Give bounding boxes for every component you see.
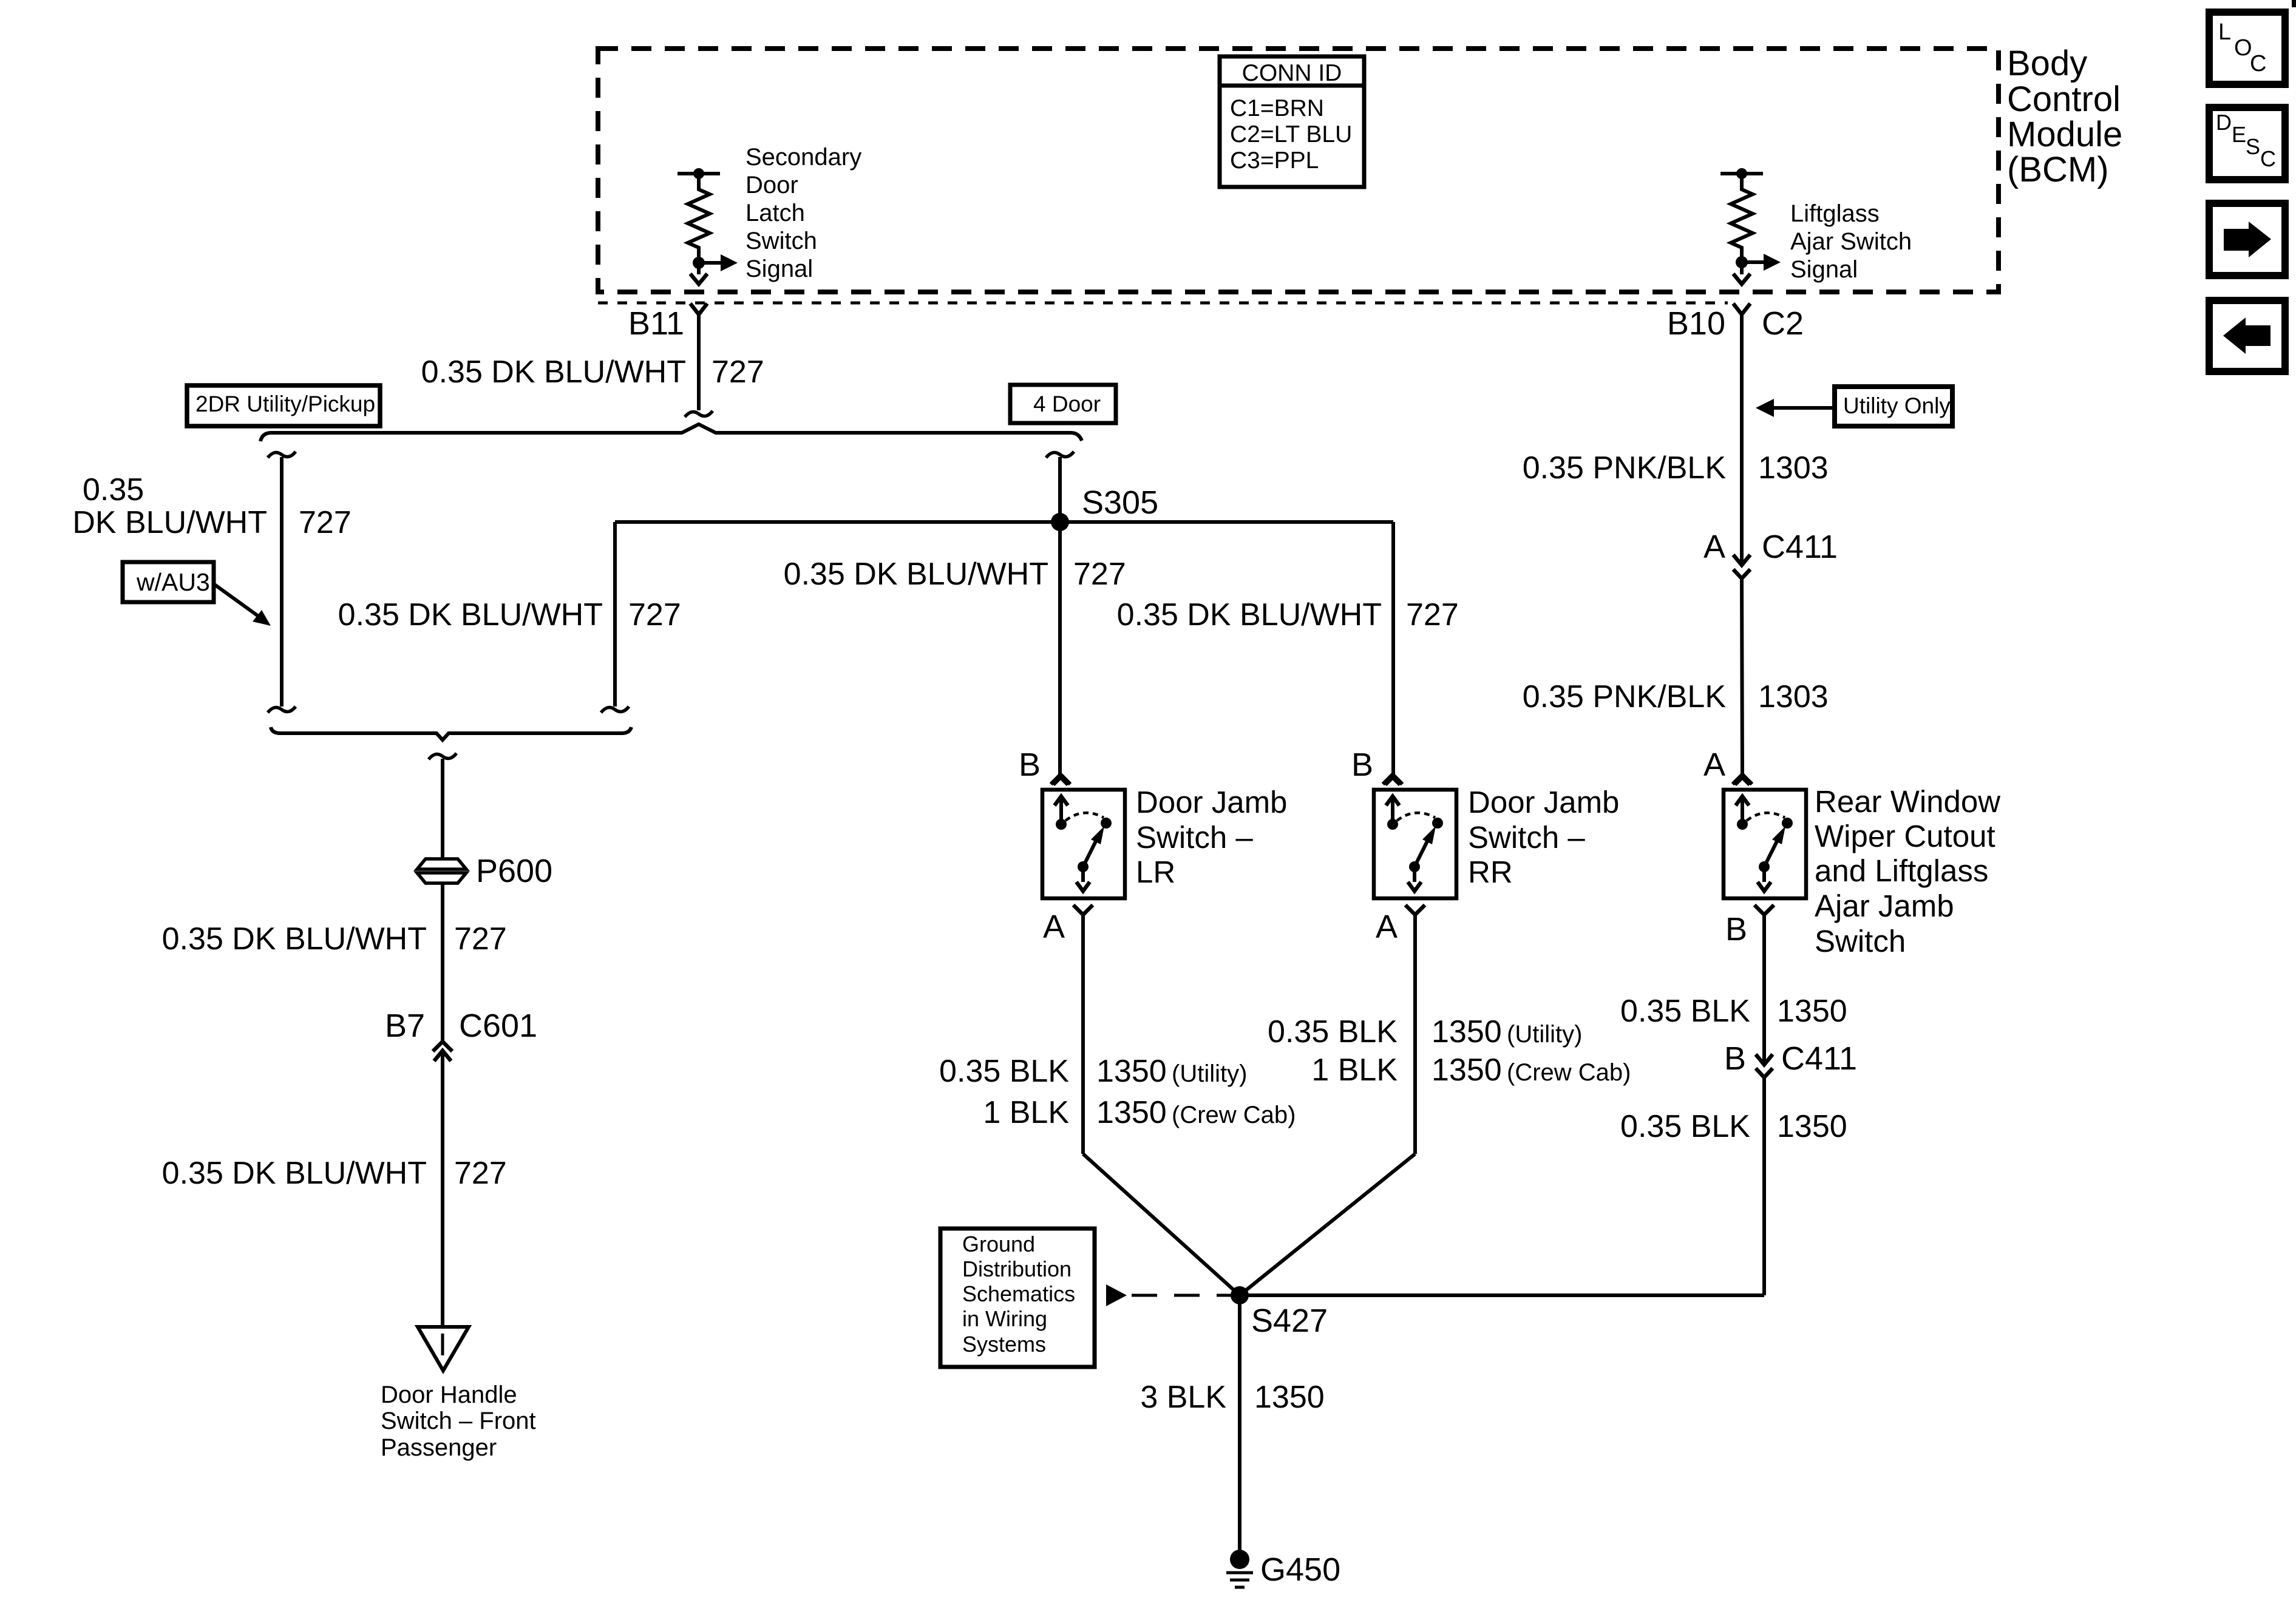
svg-text:4 Door: 4 Door [1033,392,1101,416]
component: Door Jamb Switch - RR (box and contacts) [1374,790,1456,898]
component: Door Jamb Switch - LR (box and contacts) [1042,790,1125,898]
w/AU3 pointer arrow [214,584,257,615]
svg-text:0.35 BLK: 0.35 BLK [1620,994,1750,1029]
svg-text:C411: C411 [1762,529,1838,565]
svg-text:0.35 PNK/BLK: 0.35 PNK/BLK [1523,679,1727,714]
pin A of rear window switch [1733,775,1752,784]
svg-text:(BCM): (BCM) [2007,150,2109,189]
wire S305 left leg down [613,522,617,707]
pin B10 female fork below connector line [1733,303,1750,314]
wire C601 to Door Handle Switch [441,1056,444,1327]
svg-text:C1=BRN: C1=BRN [1230,95,1324,121]
svg-text:S305: S305 [1082,484,1158,521]
svg-text:Rear Window: Rear Window [1815,784,2000,819]
off-page triangle to Door Handle Switch [418,1327,469,1371]
pin B10 male chevron [1733,274,1750,284]
svg-text:B: B [1724,1040,1746,1077]
svg-text:D: D [2216,110,2232,135]
wire 4 Door branch down through S305 [1058,457,1062,775]
tilde at bottom of 2DR branch wire [268,707,296,713]
pin B11 female fork below connector line [690,303,707,314]
sidebar LOC button [2209,12,2285,84]
svg-text:1350: 1350 [1096,1095,1167,1130]
svg-text:Door: Door [746,172,798,198]
grommet P600 symbol [417,859,466,869]
svg-text:LR: LR [1136,855,1175,889]
svg-text:B: B [1019,747,1041,783]
svg-text:1 BLK: 1 BLK [1311,1053,1398,1088]
sidebar back arrow button [2209,300,2285,371]
tilde below merge brace [429,753,457,759]
pin B of LR switch [1051,775,1070,784]
svg-text:L: L [2218,19,2231,45]
svg-text:G450: G450 [1260,1551,1340,1588]
svg-text:C2=LT BLU: C2=LT BLU [1230,121,1352,147]
svg-text:Door Handle: Door Handle [381,1381,517,1408]
wire C411 B down and left to S427 [1762,1078,1766,1295]
svg-text:(Utility): (Utility) [1507,1021,1582,1048]
wire B10 down to C411 [1740,315,1744,564]
svg-text:C: C [2250,51,2266,76]
wire C411 to rear window switch [1742,578,1742,775]
ground G450 symbol [1230,1550,1249,1569]
svg-text:Door Jamb: Door Jamb [1468,785,1619,819]
Ground Distribution reference box [940,1229,1095,1367]
Utility Only pointer arrow [1774,406,1835,410]
svg-text:1350: 1350 [1777,1109,1847,1144]
wire S427 to G450 [1238,1295,1241,1550]
option tag box: 2DR Utility/Pickup [187,385,380,426]
option merge brace (bottom) [271,727,631,740]
svg-text:1350: 1350 [1432,1053,1502,1088]
wire merged branch down to P600 [441,759,444,858]
svg-text:B11: B11 [628,305,684,342]
pin B11 male chevron [690,274,707,284]
svg-text:S427: S427 [1251,1303,1328,1339]
wire R1 to pin B11 [697,263,701,274]
svg-text:727: 727 [1406,597,1459,632]
svg-text:Switch –: Switch – [1136,820,1253,855]
pin B of rear window switch [1754,905,1774,915]
svg-text:1350: 1350 [1254,1380,1325,1415]
wire LR A down [1081,915,1085,1154]
option tag box: 4 Door [1010,385,1116,423]
svg-text:Switch – Front: Switch – Front [381,1408,536,1434]
inline connector C411 pin B symbol [1756,1054,1773,1065]
svg-text:A: A [1703,747,1725,783]
svg-text:S: S [2246,134,2260,159]
pin A of RR switch [1405,905,1425,915]
svg-text:B: B [1725,911,1747,947]
page edge mark [2292,0,2296,7]
svg-text:1350: 1350 [1432,1014,1502,1049]
inline connector C601 symbol [433,1042,452,1051]
sidebar DESC button [2209,107,2285,180]
svg-text:and Liftglass: and Liftglass [1815,853,1988,888]
resistor R1 (Secondary Door Latch Switch pull-up) [678,172,720,175]
svg-text:Ground: Ground [962,1232,1035,1256]
svg-text:0.35 DK BLU/WHT: 0.35 DK BLU/WHT [162,1156,427,1191]
svg-text:DK BLU/WHT: DK BLU/WHT [72,505,267,540]
CONN ID table box [1220,56,1364,187]
splice S427 junction dot [1231,1286,1249,1304]
svg-text:Switch: Switch [746,228,817,254]
svg-text:Latch: Latch [746,200,805,226]
svg-text:Systems: Systems [962,1332,1046,1357]
option tag box: w/AU3 [123,562,214,602]
wire rear switch B down to C411 B [1762,915,1766,1062]
svg-text:Liftglass: Liftglass [1790,200,1880,227]
svg-text:0.35 BLK: 0.35 BLK [939,1054,1069,1089]
wire LR diagonal to S427 [1083,1154,1240,1295]
svg-text:in Wiring: in Wiring [962,1306,1047,1331]
R1 signal tap arrow [699,261,721,265]
wire-end tilde at brace (B11) [685,411,713,417]
svg-text:1350: 1350 [1096,1054,1167,1089]
svg-text:0.35 DK BLU/WHT: 0.35 DK BLU/WHT [421,354,686,390]
wire S305 right leg down to RR switch [1391,522,1395,775]
svg-text:727: 727 [454,1156,507,1191]
dashed pointer to S427 [1106,1284,1127,1306]
svg-text:1303: 1303 [1758,450,1829,486]
Utility Only tag box [1835,387,1952,426]
svg-text:727: 727 [628,597,681,632]
BCM connector face thin dashed line [598,302,1728,305]
svg-text:0.35 DK BLU/WHT: 0.35 DK BLU/WHT [162,921,427,957]
svg-text:A: A [1043,909,1065,945]
svg-text:w/AU3: w/AU3 [136,568,210,596]
svg-text:Body: Body [2007,44,2087,83]
svg-text:Module: Module [2007,115,2122,154]
svg-text:Signal: Signal [746,256,813,282]
R2 signal tap arrow [1742,260,1764,264]
svg-text:727: 727 [299,505,352,540]
option split brace (top) [260,424,1082,441]
wire R2 to pin B10 [1740,262,1744,274]
svg-text:C411: C411 [1781,1040,1857,1077]
svg-text:A: A [1703,529,1725,565]
svg-text:(Crew Cab): (Crew Cab) [1507,1059,1631,1086]
svg-text:CONN ID: CONN ID [1242,60,1342,86]
svg-text:0.35 BLK: 0.35 BLK [1620,1109,1750,1144]
inline connector C411 pin A symbol [1733,555,1750,565]
svg-text:Switch –: Switch – [1468,820,1585,855]
svg-text:Signal: Signal [1790,256,1858,283]
splice S305 junction dot [1051,513,1069,531]
tilde at top of S305 wire [1046,452,1074,458]
svg-text:727: 727 [454,921,507,957]
svg-text:B: B [1351,747,1373,783]
svg-text:0.35 DK BLU/WHT: 0.35 DK BLU/WHT [1117,597,1382,632]
svg-text:1350: 1350 [1777,994,1847,1029]
svg-text:Utility Only: Utility Only [1843,393,1951,418]
svg-text:C601: C601 [459,1008,537,1044]
svg-text:Passenger: Passenger [381,1434,497,1461]
pin B of RR switch [1383,775,1402,784]
wire S305 horizontal bus [615,520,1393,524]
tilde at bottom of S305 left leg [601,707,629,713]
svg-text:Control: Control [2007,80,2121,119]
svg-text:Door Jamb: Door Jamb [1136,785,1287,819]
svg-text:0.35: 0.35 [83,472,144,507]
svg-text:C2: C2 [1762,305,1804,342]
svg-text:P600: P600 [476,853,552,889]
svg-text:B10: B10 [1667,305,1725,342]
wire RR A down [1413,915,1417,1154]
Body Control Module (BCM) dashed box [598,49,1999,292]
svg-text:Secondary: Secondary [746,144,861,171]
svg-text:C: C [2260,146,2276,171]
svg-text:0.35 BLK: 0.35 BLK [1268,1014,1398,1049]
svg-text:Switch: Switch [1815,924,1906,958]
sidebar forward arrow button [2209,203,2285,276]
svg-text:1303: 1303 [1758,679,1829,714]
resistor R2 (Liftglass Ajar Switch pull-up) [1720,172,1763,175]
svg-text:727: 727 [712,354,764,390]
wire B11 down to brace [697,315,701,410]
svg-text:B7: B7 [385,1008,425,1044]
svg-text:Wiper Cutout: Wiper Cutout [1815,819,1995,853]
svg-text:2DR Utility/Pickup: 2DR Utility/Pickup [195,392,375,416]
svg-text:727: 727 [1073,557,1126,592]
svg-text:Ajar Jamb: Ajar Jamb [1815,889,1954,923]
svg-text:1 BLK: 1 BLK [983,1095,1069,1130]
svg-text:0.35 DK BLU/WHT: 0.35 DK BLU/WHT [784,557,1048,592]
tilde at top of 2DR branch wire [268,452,296,458]
svg-text:RR: RR [1468,855,1513,889]
svg-text:Distribution: Distribution [962,1256,1072,1281]
svg-text:Ajar Switch: Ajar Switch [1790,228,1912,255]
svg-text:(Crew Cab): (Crew Cab) [1172,1102,1296,1128]
svg-text:0.35 PNK/BLK: 0.35 PNK/BLK [1523,450,1727,486]
svg-text:Schematics: Schematics [962,1281,1075,1306]
svg-text:0.35 DK BLU/WHT: 0.35 DK BLU/WHT [338,597,603,632]
svg-text:(Utility): (Utility) [1172,1060,1247,1087]
wire RR diagonal to S427 [1240,1154,1415,1295]
component: Rear Window Wiper Cutout and Liftglass Ajar Jamb Switch (box and contacts) [1724,790,1806,898]
pin A of LR switch [1073,905,1093,915]
wire 2DR branch vertical [280,457,284,707]
wire P600 to C601 [441,883,444,1040]
svg-text:3 BLK: 3 BLK [1140,1380,1226,1415]
svg-text:E: E [2232,122,2246,147]
svg-text:A: A [1376,909,1398,945]
svg-text:C3=PPL: C3=PPL [1230,147,1319,174]
